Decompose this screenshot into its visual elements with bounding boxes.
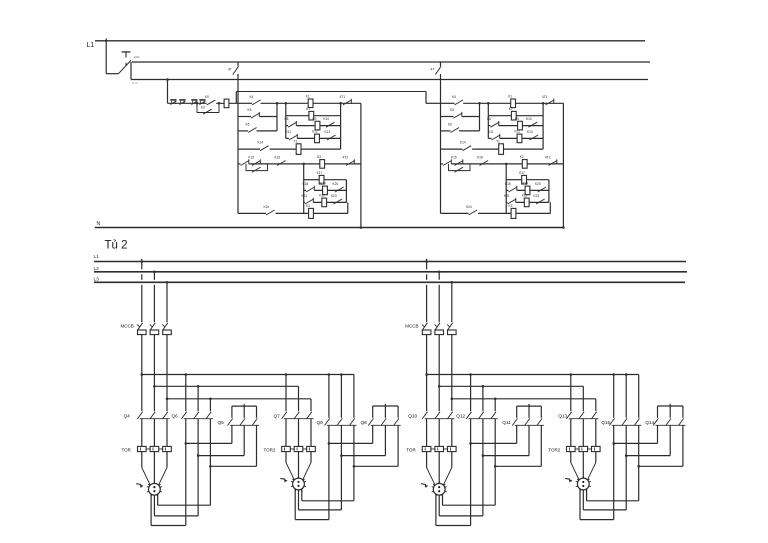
svg-text:4T2: 4T2 bbox=[343, 155, 349, 159]
Q8 pole 2 blade bbox=[381, 418, 386, 425]
svg-text:K23: K23 bbox=[534, 194, 540, 198]
MCCB-left half pole 3 bbox=[163, 323, 168, 331]
svg-text:4T: 4T bbox=[228, 68, 232, 72]
svg-text:K16: K16 bbox=[275, 155, 281, 159]
Q6 linkage bar bbox=[184, 418, 213, 420]
inner vertical a (block1) bbox=[276, 103, 278, 131]
Q5 pole 1 blade bbox=[228, 418, 233, 425]
contact K4 on rung A bbox=[252, 100, 261, 105]
wire joining bus2 and bus3 left ends bbox=[130, 62, 132, 80]
feeder line F2 (right half) bbox=[439, 385, 583, 387]
motor motor B (right half) winding dots bbox=[582, 481, 584, 483]
contact on pilot seal branch bbox=[203, 109, 212, 114]
wire Q8 outputs to motor B bus (left half) bbox=[372, 425, 374, 443]
feeder tap junctions (right half) bbox=[425, 373, 428, 376]
junctions star1-delta1 (right half) bbox=[469, 442, 472, 445]
Q14 pole 2 blade bbox=[666, 418, 671, 425]
TOR heater element 3 bbox=[448, 446, 457, 451]
inner vertical c (block2) bbox=[542, 103, 544, 149]
svg-text:N 10: N 10 bbox=[132, 81, 138, 85]
wire Q9 pole outputs down (left half) bbox=[328, 425, 330, 519]
svg-text:T1: T1 bbox=[294, 139, 298, 143]
wire Q15 pole outputs down (right half) bbox=[613, 425, 615, 519]
svg-text:K12: K12 bbox=[312, 130, 318, 134]
rung A of block1 bbox=[238, 102, 252, 104]
fuse symbol T above switch bbox=[122, 51, 131, 53]
wire Q13 to TOR2 (right half) bbox=[570, 419, 572, 447]
sub-rung 1 coil K7 bbox=[286, 115, 309, 117]
svg-text:MCCB: MCCB bbox=[121, 324, 134, 329]
svg-text:K15: K15 bbox=[451, 155, 457, 159]
delta contactor group 1 risers (right half) bbox=[470, 375, 472, 412]
wire MCCB outputs (right half) bbox=[426, 335, 428, 412]
Q9 pole 1 blade bbox=[325, 418, 330, 425]
svg-text:K20: K20 bbox=[333, 182, 339, 186]
Q9 pole 2 blade bbox=[337, 418, 342, 425]
feeder line F1 (right half) bbox=[427, 374, 639, 376]
svg-text:Q12: Q12 bbox=[456, 413, 465, 418]
svg-text:K6: K6 bbox=[246, 122, 250, 126]
junctions star2-delta2 (right half) bbox=[612, 442, 615, 445]
TOR2 heater element 3 bbox=[307, 446, 316, 451]
bus tie line between blocks bbox=[236, 91, 426, 93]
rung B with NC contact K5 bbox=[441, 116, 454, 118]
phase drop 3 from L3 (left half) bbox=[166, 282, 168, 322]
svg-text:K0: K0 bbox=[205, 95, 209, 99]
motor motor B (left half) body bbox=[293, 478, 305, 490]
svg-text:K22: K22 bbox=[319, 194, 325, 198]
Q14 pole 3 blade bbox=[679, 418, 684, 425]
NC contact 4T1 on rung A bbox=[343, 100, 352, 105]
MCCB-right half pole 1 bbox=[422, 323, 427, 331]
svg-text:K11: K11 bbox=[488, 130, 494, 134]
Q14 pole 1 blade bbox=[653, 418, 658, 425]
motor motor B (left half) rotation arrow bbox=[280, 477, 285, 480]
svg-text:K6: K6 bbox=[448, 122, 452, 126]
right return vertical of block1 bbox=[360, 103, 362, 227]
svg-text:4T: 4T bbox=[431, 68, 435, 72]
sub-rung 6: NC K21, coil K22, NO K23 bbox=[506, 201, 507, 203]
rung E master: NC, NC, NO, coil, NC bbox=[441, 163, 444, 165]
svg-text:Q14: Q14 bbox=[645, 420, 654, 425]
Q12 pole 3 blade bbox=[491, 412, 496, 419]
Q13 linkage bar bbox=[569, 418, 599, 420]
rung D: NO contact and timer coil T1 bbox=[238, 148, 260, 150]
svg-text:K9: K9 bbox=[515, 117, 519, 121]
svg-text:TOR: TOR bbox=[122, 448, 132, 453]
svg-text:K8: K8 bbox=[487, 117, 491, 121]
svg-text:Q13: Q13 bbox=[558, 413, 567, 418]
motor motor A (left half) body bbox=[149, 483, 161, 495]
Q9 pole 3 blade bbox=[350, 418, 355, 425]
motor A secondary staircase (right half) bbox=[435, 494, 437, 526]
wire: drop from L1 to disconnect switch bbox=[105, 39, 107, 74]
sub-rung 4 coil K17 bbox=[304, 179, 320, 181]
star bridge 1 (right half) bbox=[517, 405, 542, 407]
power bus L3 bbox=[94, 281, 685, 283]
sub-rung 6: NC K21, coil K22, NO K23 bbox=[304, 201, 305, 203]
sub-rung 1 coil K7 bbox=[488, 115, 511, 117]
MCCB-left half pole 2 bbox=[150, 323, 155, 331]
junctions star2-delta2 (left half) bbox=[328, 442, 331, 445]
svg-text:Q5: Q5 bbox=[218, 420, 225, 425]
wire Q10 to TOR (right half) bbox=[426, 419, 428, 447]
svg-text:K12: K12 bbox=[515, 130, 521, 134]
TOR heater element 2 bbox=[150, 446, 159, 451]
svg-text:Q10: Q10 bbox=[408, 413, 417, 418]
pushbutton PB1 bbox=[170, 99, 176, 101]
phase drop 3 from L3 (right half) bbox=[451, 282, 453, 322]
disconnect switch blade bbox=[119, 60, 131, 73]
feeder line F3 (left half) bbox=[167, 398, 311, 400]
Q11 linkage bar bbox=[515, 424, 544, 426]
switch contact on pilot rung bbox=[207, 100, 216, 105]
svg-text:TOR2: TOR2 bbox=[264, 448, 276, 453]
wire TOR to motor leads (left half) bbox=[141, 452, 143, 468]
rung A of block2 bbox=[441, 102, 455, 104]
control bus 3 bbox=[131, 79, 648, 81]
delta contactor group 1 risers (left half) bbox=[185, 375, 187, 412]
svg-text:K7: K7 bbox=[306, 107, 310, 111]
Q5 linkage bar bbox=[230, 424, 259, 426]
svg-text:T1: T1 bbox=[496, 139, 500, 143]
svg-text:4T1: 4T1 bbox=[542, 95, 548, 99]
wire MCCB outputs (left half) bbox=[141, 335, 143, 412]
svg-text:K14: K14 bbox=[258, 141, 264, 145]
sub-rung 4 coil K17 bbox=[506, 179, 522, 181]
phase drop 1 from L1 (right half) bbox=[426, 259, 428, 270]
TOR heater element 1 bbox=[422, 446, 431, 451]
wire: drop from bus3 to pilot rung bbox=[167, 80, 169, 104]
TOR2 links bbox=[575, 448, 579, 450]
sub-rung 3: NC K11, coil K12, NO K13 bbox=[286, 137, 289, 139]
svg-text:Q9: Q9 bbox=[317, 420, 324, 425]
Q12 pole 2 blade bbox=[479, 412, 484, 419]
feeder tap junctions (left half) bbox=[141, 373, 144, 376]
MCCB-right half pole 2 bbox=[435, 323, 440, 331]
vertical joining bottom rung to sub-ladder bbox=[549, 202, 551, 213]
svg-text:K10: K10 bbox=[526, 117, 532, 121]
inner vertical d (block1) bbox=[303, 164, 305, 214]
star bridge 2 (right half) bbox=[658, 405, 683, 407]
wire Q6 pole outputs down (left half) bbox=[185, 419, 187, 526]
Q11 pole 2 blade bbox=[525, 418, 530, 425]
Q12 linkage bar bbox=[469, 418, 498, 420]
svg-text:K24: K24 bbox=[466, 205, 472, 209]
svg-text:K10: K10 bbox=[324, 117, 330, 121]
phase drop 2 from L2 (left half) bbox=[153, 272, 155, 280]
sub-rung 2: NC K8, coil K9, NO K10 bbox=[286, 125, 288, 127]
svg-text:Q7: Q7 bbox=[274, 413, 281, 418]
inner vertical c (block1) bbox=[340, 103, 342, 149]
Q8 pole 3 blade bbox=[394, 418, 399, 425]
svg-text:K18: K18 bbox=[505, 182, 511, 186]
svg-text:4T1: 4T1 bbox=[340, 95, 346, 99]
MCCB-left half pole 1 bbox=[137, 323, 142, 331]
wire Q7 to TOR2 (left half) bbox=[285, 419, 287, 447]
svg-text:TOR2: TOR2 bbox=[548, 448, 560, 453]
wire TOR2 to motor B leads (left half) bbox=[285, 452, 287, 463]
inner vertical b (block1) bbox=[285, 103, 287, 138]
rung E master: NC, NC, NO, coil, NC bbox=[238, 163, 241, 165]
svg-text:Q4: Q4 bbox=[124, 413, 131, 418]
control bus 2 bbox=[132, 61, 650, 63]
svg-text:K2: K2 bbox=[317, 155, 321, 159]
Q13 pole 1 blade bbox=[566, 412, 571, 419]
seal branch of pilot rung bbox=[197, 103, 219, 112]
feeder corners to Q13 (right half) bbox=[570, 375, 572, 412]
motor motor B (right half) body bbox=[577, 478, 589, 490]
pushbutton PB4 bbox=[199, 99, 205, 101]
motor motor B (left half) winding dots bbox=[297, 481, 299, 483]
Q15 linkage bar bbox=[612, 424, 642, 426]
svg-text:Tủ 2: Tủ 2 bbox=[105, 240, 128, 252]
junction on bus L1 bbox=[105, 40, 107, 42]
svg-text:K21: K21 bbox=[302, 194, 308, 198]
svg-text:N: N bbox=[97, 221, 101, 227]
svg-text:K17: K17 bbox=[519, 171, 525, 175]
Q15 pole 3 blade bbox=[634, 418, 639, 425]
phase drop 1 from L1 (left half) bbox=[141, 259, 143, 270]
Q8 pole 1 blade bbox=[368, 418, 373, 425]
TOR links bbox=[431, 448, 435, 450]
svg-text:K9: K9 bbox=[313, 117, 317, 121]
TOR2 heater element 1 bbox=[282, 446, 291, 451]
svg-text:K15: K15 bbox=[249, 155, 255, 159]
Q13 pole 3 blade bbox=[591, 412, 596, 419]
TOR2 heater element 3 bbox=[592, 446, 601, 451]
Q14 linkage bar bbox=[656, 424, 686, 426]
Q15 pole 1 blade bbox=[609, 418, 614, 425]
svg-text:K24: K24 bbox=[264, 205, 270, 209]
TOR links bbox=[146, 448, 150, 450]
motor motor A (left half) winding dots bbox=[153, 486, 155, 488]
Q10 pole 1 blade bbox=[422, 412, 427, 419]
rung D: NO contact and timer coil T1 bbox=[441, 148, 463, 150]
sub-rung 3: NC K11, coil K12, NO K13 bbox=[488, 137, 491, 139]
pushbutton PB3 bbox=[191, 99, 197, 101]
neutral bus N horizontal bbox=[95, 227, 564, 229]
MCCB-right half pole 3 bbox=[447, 323, 452, 331]
pilot rung to left block bbox=[168, 102, 207, 104]
svg-text:K13: K13 bbox=[325, 130, 331, 134]
seal-in branch below rung E bbox=[449, 164, 471, 171]
svg-text:K16: K16 bbox=[477, 155, 483, 159]
motor motor A (right half) rotation arrow bbox=[421, 483, 426, 486]
contact K4 on rung A bbox=[455, 100, 464, 105]
junction block2 right-to-N bbox=[562, 226, 565, 229]
inner vertical b (block2) bbox=[487, 103, 489, 138]
motor motor A (left half) rotation arrow bbox=[136, 483, 141, 486]
Q4 pole 3 blade bbox=[163, 412, 168, 419]
TOR2 heater element 2 bbox=[579, 446, 588, 451]
NC contact 4T1 on rung A bbox=[546, 100, 555, 105]
star bridge 2 (left half) bbox=[373, 405, 398, 407]
Q4 linkage bar bbox=[140, 418, 170, 420]
svg-text:K2: K2 bbox=[520, 155, 524, 159]
bottom rung: NO contact and coil K3 bbox=[441, 212, 469, 214]
svg-text:MCCB: MCCB bbox=[405, 324, 418, 329]
svg-text:K2: K2 bbox=[201, 106, 205, 110]
svg-text:K23: K23 bbox=[331, 194, 337, 198]
wire Q12 pole outputs down (right half) bbox=[470, 419, 472, 526]
junction on bus 3 feeding pilot rung bbox=[166, 78, 169, 81]
TOR heater element 1 bbox=[138, 446, 147, 451]
rung B with NC contact K5 bbox=[238, 116, 251, 118]
delta contactor group 2 risers (left half) bbox=[328, 375, 330, 418]
vertical joining bottom rung to sub-ladder bbox=[347, 202, 349, 213]
seal-in branch below rung E bbox=[246, 164, 268, 171]
wire Q4 to TOR (left half) bbox=[141, 419, 143, 447]
delta contactor group 2 risers (right half) bbox=[613, 375, 615, 418]
TOR heater element 2 bbox=[435, 446, 444, 451]
inner vertical d (block2) bbox=[505, 164, 507, 214]
Q7 pole 1 blade bbox=[282, 412, 287, 419]
svg-text:Q6: Q6 bbox=[172, 413, 179, 418]
inner vertical e (block2) bbox=[548, 180, 550, 203]
motor motor A (right half) body bbox=[433, 483, 445, 495]
svg-text:K1: K1 bbox=[306, 95, 310, 99]
Q12 pole 1 blade bbox=[466, 412, 471, 419]
svg-text:Q8: Q8 bbox=[361, 420, 368, 425]
feeder line F1 (left half) bbox=[142, 374, 354, 376]
power bus L1 bbox=[94, 261, 686, 263]
wire: block1 left supply vertical bbox=[237, 62, 239, 66]
sub-rung 5: NC K18, coil K19, NO K20 bbox=[304, 189, 306, 191]
bus L1 top horizontal bbox=[95, 40, 645, 42]
inner vertical e (block1) bbox=[345, 180, 347, 203]
sub-rung 2: NC K8, coil K9, NO K10 bbox=[488, 125, 490, 127]
svg-text:K3: K3 bbox=[306, 204, 310, 208]
svg-text:Q11: Q11 bbox=[502, 420, 511, 425]
svg-text:K17: K17 bbox=[317, 171, 323, 175]
power bus L2 bbox=[94, 271, 687, 273]
Q9 linkage bar bbox=[327, 424, 357, 426]
bottom rung: NO contact and coil K3 bbox=[238, 212, 266, 214]
right return vertical of block2 bbox=[562, 103, 564, 227]
svg-text:K8: K8 bbox=[285, 117, 289, 121]
motor motor A (right half) winding dots bbox=[438, 486, 440, 488]
Q6 pole 3 blade bbox=[206, 412, 211, 419]
wire: tie line drop to right block bbox=[425, 92, 427, 104]
svg-text:K19: K19 bbox=[320, 182, 326, 186]
junction block1 right-to-N bbox=[360, 226, 363, 229]
Q4 pole 2 blade bbox=[150, 412, 155, 419]
Q15 pole 2 blade bbox=[622, 418, 627, 425]
TOR2 heater element 2 bbox=[294, 446, 303, 451]
wire TOR to motor leads (right half) bbox=[426, 452, 428, 468]
feeder line F2 (left half) bbox=[154, 385, 298, 387]
Q11 pole 3 blade bbox=[537, 418, 542, 425]
svg-text:K11: K11 bbox=[286, 130, 292, 134]
coil K1 on rung A bbox=[308, 99, 313, 108]
TOR2 heater element 1 bbox=[567, 446, 576, 451]
svg-text:4T2: 4T2 bbox=[545, 155, 551, 159]
feeder line F3 (right half) bbox=[452, 398, 596, 400]
rung C with NO contact K6 bbox=[238, 130, 248, 132]
svg-text:K20: K20 bbox=[535, 182, 541, 186]
svg-text:K13: K13 bbox=[527, 130, 533, 134]
wire: block2 left supply vertical bbox=[440, 62, 442, 66]
Q11 pole 1 blade bbox=[512, 418, 517, 425]
svg-text:K5: K5 bbox=[450, 108, 454, 112]
Q5 pole 3 blade bbox=[252, 418, 257, 425]
Q10 pole 3 blade bbox=[447, 412, 452, 419]
Q5 pole 2 blade bbox=[240, 418, 245, 425]
wire TOR2 to motor B leads (right half) bbox=[570, 452, 572, 463]
motor B secondary staircase (left half) bbox=[294, 489, 296, 520]
TOR heater element 3 bbox=[163, 446, 172, 451]
coil K1 on rung A bbox=[511, 99, 516, 108]
Q8 linkage bar bbox=[371, 424, 401, 426]
svg-text:K3: K3 bbox=[509, 204, 513, 208]
disconnect contact on block1 supply bbox=[233, 66, 239, 74]
disconnect contact on block2 supply bbox=[435, 66, 441, 74]
motor B secondary staircase (right half) bbox=[579, 489, 581, 520]
junctions star1-delta1 (left half) bbox=[185, 442, 188, 445]
pushbutton PB2 bbox=[179, 99, 185, 101]
svg-text:220v: 220v bbox=[134, 55, 141, 59]
wire Q11 outputs to motor bus (right half) bbox=[516, 425, 518, 443]
svg-text:K21: K21 bbox=[504, 194, 510, 198]
svg-text:L1: L1 bbox=[87, 42, 95, 49]
svg-text:L1: L1 bbox=[94, 254, 100, 260]
motor motor B (right half) rotation arrow bbox=[565, 477, 570, 480]
rung C with NO contact K6 bbox=[441, 130, 451, 132]
motor A secondary staircase (left half) bbox=[150, 494, 152, 526]
svg-text:K7: K7 bbox=[509, 107, 513, 111]
Q13 pole 2 blade bbox=[579, 412, 584, 419]
svg-text:K18: K18 bbox=[303, 182, 309, 186]
wire Q5 outputs to motor bus (left half) bbox=[231, 425, 233, 443]
Q7 pole 3 blade bbox=[307, 412, 312, 419]
phase drop 2 from L2 (right half) bbox=[438, 272, 440, 280]
svg-text:K4: K4 bbox=[250, 95, 254, 99]
svg-text:K4: K4 bbox=[452, 95, 456, 99]
star bridge 1 (left half) bbox=[232, 405, 257, 407]
svg-text:K5: K5 bbox=[248, 108, 252, 112]
Q7 pole 2 blade bbox=[294, 412, 299, 419]
inner vertical a (block2) bbox=[479, 103, 481, 131]
svg-text:Q15: Q15 bbox=[601, 420, 610, 425]
svg-text:TOR: TOR bbox=[406, 448, 416, 453]
wire Q14 outputs to motor B bus (right half) bbox=[657, 425, 659, 443]
Q4 pole 1 blade bbox=[137, 412, 142, 419]
svg-text:K14: K14 bbox=[460, 141, 466, 145]
Q6 pole 1 blade bbox=[181, 412, 186, 419]
Q7 linkage bar bbox=[284, 418, 314, 420]
svg-text:K1: K1 bbox=[508, 95, 512, 99]
Q10 pole 2 blade bbox=[435, 412, 440, 419]
svg-text:K19: K19 bbox=[523, 182, 529, 186]
Q10 linkage bar bbox=[425, 418, 455, 420]
pilot coil bbox=[224, 99, 229, 108]
Q6 pole 2 blade bbox=[194, 412, 199, 419]
svg-text:K22: K22 bbox=[522, 194, 528, 198]
TOR2 links bbox=[290, 448, 294, 450]
feeder corners to Q7 (left half) bbox=[285, 375, 287, 412]
sub-rung 5: NC K18, coil K19, NO K20 bbox=[506, 189, 508, 191]
